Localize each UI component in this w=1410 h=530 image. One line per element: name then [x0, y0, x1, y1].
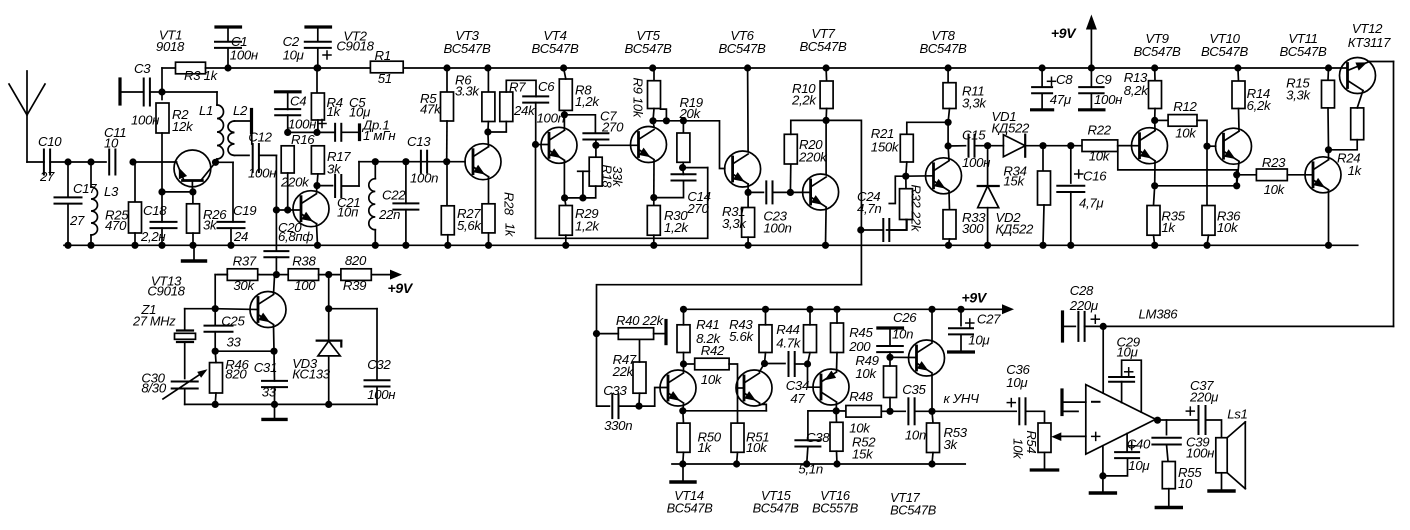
capacitor C25 33: [205, 326, 233, 332]
wire R40 right: [654, 333, 665, 335]
svg-text:3,3k: 3,3k: [722, 216, 747, 231]
wire R43 bottom: [765, 353, 766, 364]
capacitor C5 10μ: [335, 124, 341, 141]
svg-text:1,2k: 1,2k: [575, 218, 600, 233]
junction: [663, 117, 670, 124]
wire R9 top: [653, 68, 655, 81]
wire R20 bottom: [789, 164, 791, 192]
ferrite rod terminal: [250, 110, 253, 133]
svg-text:R45: R45: [849, 325, 873, 340]
svg-text:R38: R38: [292, 254, 316, 269]
svg-text:C4: C4: [290, 94, 306, 109]
svg-text:C38: C38: [806, 430, 830, 445]
wire R7-C6 top: [506, 80, 536, 96]
wire to VT6 base: [683, 121, 724, 169]
wire R2 bottom: [161, 133, 163, 192]
wire R53 bottom: [932, 453, 933, 465]
wire C14 top: [682, 168, 685, 175]
wire L1 top: [162, 91, 217, 93]
wire R27 top: [446, 162, 448, 206]
wire: [358, 162, 360, 186]
junction: [443, 158, 450, 165]
wire: [975, 145, 1004, 147]
antenna WA1: [9, 71, 45, 162]
junction: [372, 242, 379, 249]
wire to speaker: [1206, 420, 1222, 438]
svg-text:C9018: C9018: [336, 38, 374, 53]
svg-text:100н: 100н: [248, 166, 276, 181]
wire R24 bottom: [1329, 140, 1358, 150]
wire VT13 base: [215, 308, 258, 311]
wire R35 bottom: [1154, 235, 1155, 245]
emitter arrow VT12: [1355, 62, 1367, 70]
svg-text:100н: 100н: [1186, 446, 1214, 461]
wire VT16 base: [808, 364, 822, 387]
capacitor C17 27: [55, 197, 82, 203]
capacitor C31 33: [262, 381, 287, 387]
junction: [803, 460, 810, 467]
svg-text:C31: C31: [254, 360, 277, 375]
wire R23 right: [1287, 174, 1313, 176]
junction: [806, 306, 813, 313]
wire: [376, 309, 378, 380]
junction: [1099, 472, 1106, 479]
resistor R25 470: [129, 202, 142, 233]
junction: [804, 360, 811, 367]
junction: [313, 129, 320, 136]
capacitor C35 10n: [908, 398, 914, 424]
capacitor C22 22n: [393, 203, 418, 209]
junction: [902, 173, 909, 180]
wire VT8 emitter: [948, 191, 951, 209]
svg-text:27: 27: [69, 213, 85, 228]
junction: [745, 242, 752, 249]
svg-text:200: 200: [848, 339, 871, 354]
wire: [120, 91, 144, 93]
svg-text:47k: 47k: [420, 102, 442, 117]
junction: [484, 128, 491, 135]
wire C7 top: [564, 115, 595, 133]
resistor R47 22k: [633, 362, 646, 393]
wire R49 bottom: [889, 398, 891, 412]
junction: [444, 242, 451, 249]
junction: [87, 158, 94, 165]
junction: [984, 142, 991, 149]
svg-text:10k: 10k: [746, 440, 768, 455]
wire R41 bottom: [683, 353, 685, 365]
wire C24 left: [861, 229, 883, 231]
wire VT17 base: [890, 356, 917, 358]
wire R35 top: [1154, 186, 1155, 206]
wire coil bottom: [374, 230, 376, 246]
junction: [928, 408, 935, 415]
wire R51 bottom: [736, 452, 739, 464]
svg-text:R12: R12: [1173, 99, 1197, 114]
wire C12 out: [259, 154, 276, 156]
wire R12 left: [1155, 119, 1168, 121]
junction: [212, 401, 219, 408]
wire R34 bottom: [1043, 205, 1044, 245]
wire R9 tap: [661, 109, 667, 121]
junction: [129, 158, 136, 165]
junction: [1203, 143, 1210, 150]
junction: [833, 306, 840, 313]
wire C6 bottom: [535, 103, 537, 145]
svg-text:22k: 22k: [909, 210, 924, 233]
svg-text:10k: 10k: [631, 97, 646, 119]
junction: [402, 242, 409, 249]
svg-text:330n: 330n: [604, 418, 632, 433]
svg-text:1,2k: 1,2k: [575, 94, 600, 109]
resistor R46 820: [210, 363, 223, 393]
wire to VT5 base: [596, 144, 638, 146]
svg-text:C16: C16: [1083, 169, 1107, 184]
svg-text:C22: C22: [382, 188, 406, 203]
svg-text:24: 24: [233, 229, 248, 244]
wiper arrow R54: [1051, 432, 1061, 441]
junction: [650, 242, 657, 249]
svg-text:C13: C13: [407, 134, 431, 149]
wire: [184, 342, 186, 379]
junction: [1039, 142, 1046, 149]
junction: [270, 348, 277, 355]
junction: [372, 158, 379, 165]
junction: [212, 305, 219, 312]
wire Z1 top: [184, 309, 186, 331]
wire R10 bottom: [825, 109, 828, 121]
wire emitter row: [1155, 185, 1237, 187]
svg-text:270: 270: [601, 119, 624, 134]
svg-text:C35: C35: [902, 382, 926, 397]
wire VT8 collector: [947, 146, 950, 160]
svg-text:КД522: КД522: [996, 221, 1035, 236]
wire C14 bottom: [654, 180, 684, 197]
wire R41 top: [683, 309, 685, 325]
wire VT8 base: [906, 175, 934, 177]
resistor R26 3k: [187, 204, 200, 233]
capacitor C7 270: [583, 133, 608, 139]
svg-text:R9: R9: [631, 77, 646, 93]
svg-text:L3: L3: [104, 184, 119, 199]
wire stub: [1062, 410, 1078, 412]
capacitor C29 10μ: [1109, 377, 1134, 382]
wire R42 left: [684, 363, 695, 365]
wire VT7 collector: [825, 120, 827, 174]
svg-text:C9018: C9018: [147, 284, 185, 299]
svg-text:5,1n: 5,1n: [798, 462, 822, 477]
svg-text:Ls1: Ls1: [1227, 406, 1247, 421]
inductor L1: [217, 105, 224, 159]
transistor VT4 ВС547В: [541, 127, 577, 163]
wire R44 top: [809, 309, 811, 325]
wire VT3 emitter: [488, 177, 490, 204]
svg-text:C12: C12: [248, 130, 272, 145]
ground R55: [1156, 489, 1181, 508]
junction: [1233, 171, 1240, 178]
junction: [823, 64, 830, 71]
wire: [317, 185, 333, 187]
resistor R22 10k: [1082, 140, 1118, 152]
wire C32 top: [329, 308, 377, 310]
wire: [287, 92, 289, 110]
polarity + C27: [966, 319, 974, 327]
svg-text:10k: 10k: [855, 366, 877, 381]
svg-text:270: 270: [686, 201, 709, 216]
wire to УНЧ: [932, 410, 1016, 412]
wire R10 top: [825, 68, 828, 81]
svg-text:1k: 1k: [1348, 163, 1363, 178]
svg-text:820: 820: [225, 366, 247, 381]
polarity + C37: [1186, 407, 1194, 415]
capacitor C20 6,8пф: [264, 251, 288, 257]
capacitor C33 330n: [612, 394, 618, 418]
svg-text:КД522: КД522: [992, 120, 1031, 135]
transistor VT16 ВС557В: [813, 369, 849, 405]
wire R7 bottom: [488, 122, 506, 133]
wire AF input: [597, 285, 862, 406]
wire R42 right: [729, 364, 737, 423]
wire VT2 collector: [316, 186, 319, 192]
capacitor C16 4,7μ: [1057, 186, 1084, 192]
resistor R15 3,3k: [1322, 80, 1335, 108]
wire R12 right: [1197, 120, 1207, 205]
resistor R13 8,2k: [1149, 81, 1162, 109]
svg-text:BC557B: BC557B: [812, 501, 859, 516]
wire R18 tap down: [582, 171, 584, 198]
polarity + C8: [1048, 77, 1056, 85]
svg-text:R32: R32: [909, 185, 924, 209]
wire: [276, 274, 288, 276]
wire C27 top: [960, 309, 962, 325]
wire emitter row: [683, 410, 767, 412]
svg-text:C6: C6: [538, 79, 555, 94]
wire AF takeoff: [826, 120, 861, 284]
wire VT15 collector: [760, 364, 765, 372]
resistor R1 51: [370, 61, 403, 73]
wire C1: [227, 48, 229, 68]
svg-text:C18: C18: [143, 203, 167, 218]
wire R47 top: [639, 339, 641, 362]
svg-text:10k: 10k: [1264, 182, 1286, 197]
ground: [183, 245, 206, 261]
svg-text:C17: C17: [73, 181, 97, 196]
svg-text:ВС547В: ВС547В: [919, 41, 967, 56]
junction: [945, 64, 952, 71]
junction: [402, 158, 409, 165]
wire R26 top: [192, 192, 194, 204]
resistor R19 20k: [677, 133, 690, 162]
capacitor C27 10μ: [949, 328, 973, 334]
capacitor C10 27: [44, 150, 50, 175]
wire C25 top: [214, 309, 216, 326]
wire VT11 collector: [1328, 150, 1330, 160]
junction: [679, 164, 686, 171]
junction: [227, 242, 234, 249]
transistor VT11 ВС547В: [1305, 157, 1341, 193]
wire LM386 gnd: [1102, 446, 1104, 476]
capacitor C14 270: [672, 174, 696, 180]
junction: [833, 460, 840, 467]
junction: [87, 242, 94, 249]
junction: [680, 117, 687, 124]
wire R18 tap: [578, 170, 590, 172]
resistor R4 1k: [311, 93, 324, 120]
junction: [592, 142, 599, 149]
junction: [1151, 64, 1158, 71]
svg-text:2,2k: 2,2k: [791, 92, 817, 107]
capacitor C37 220μ: [1199, 406, 1206, 434]
wire C22 bottom: [405, 210, 407, 246]
svg-text:ВС547В: ВС547В: [624, 41, 672, 56]
wire node row: [653, 120, 683, 122]
junction: [1100, 323, 1107, 330]
resistor R6 3,3k: [482, 92, 495, 122]
svg-text:10μ: 10μ: [1117, 345, 1139, 360]
resistor R7 24k: [500, 92, 513, 122]
wire R31 top: [747, 192, 749, 207]
wire R32 top: [905, 176, 907, 189]
wire VT6 collector: [747, 68, 750, 152]
wire L3 top: [90, 162, 92, 187]
capacitor C8 47μ: [1032, 87, 1052, 93]
terminal R54 gnd: [1031, 468, 1057, 471]
wire C17 top: [67, 162, 69, 197]
wire R30 top: [653, 198, 655, 206]
wire: [563, 110, 565, 114]
terminal C26 top: [878, 326, 903, 329]
junction: [787, 189, 794, 196]
svg-text:ВС547В: ВС547В: [1133, 44, 1181, 59]
trimmer tap R40: [664, 321, 667, 344]
junction: [325, 305, 332, 312]
capacitor C11 10: [109, 150, 115, 175]
wire R47 bottom: [638, 393, 641, 406]
capacitor C4 100н: [275, 109, 300, 115]
wire: [319, 274, 341, 276]
wire output: [1156, 419, 1197, 421]
wire C26 bottom: [889, 352, 891, 357]
wire: [216, 92, 218, 105]
wire R8 top: [564, 68, 566, 79]
wire VT12 emitter: [1370, 61, 1394, 63]
svg-text:C15: C15: [962, 128, 986, 143]
junction: [64, 158, 71, 165]
svg-text:10μ: 10μ: [1006, 375, 1028, 390]
junction: [579, 194, 586, 201]
transistor VT10 ВС547В: [1216, 128, 1252, 164]
junction: [744, 64, 751, 71]
junction: [484, 64, 491, 71]
wire R31 bottom: [747, 237, 749, 245]
svg-text:1k: 1k: [698, 440, 713, 455]
capacitor C28 220μ: [1078, 312, 1084, 341]
wire VT15 emitter: [760, 404, 767, 410]
wire: [1118, 145, 1132, 147]
ground osc: [263, 404, 286, 419]
wire R13 bottom: [1154, 109, 1156, 121]
junction: [1151, 242, 1158, 249]
junction: [650, 194, 657, 201]
svg-text:100n: 100n: [410, 171, 438, 186]
junction: [1067, 242, 1074, 249]
resistor R49 10k: [884, 366, 897, 398]
svg-text:R39: R39: [343, 278, 367, 293]
svg-text:10: 10: [104, 136, 119, 151]
svg-text:R40 22k: R40 22k: [616, 313, 665, 328]
transistor VT6 ВС547В: [725, 151, 761, 187]
wire R5 bottom: [446, 121, 448, 162]
wire AF +9V bus: [684, 308, 1009, 310]
junction: [1088, 64, 1095, 71]
wire VT9 feedback: [1118, 146, 1237, 170]
resistor R11 3,3k: [943, 83, 956, 109]
capacitor C38 5,1n: [795, 440, 820, 446]
wire VT1 emitter: [133, 161, 177, 163]
polarity + C40: [1128, 442, 1136, 450]
svg-text:100: 100: [294, 278, 316, 293]
wire VT10 base: [1207, 145, 1216, 147]
wire C24 right: [890, 219, 907, 230]
wire: [162, 67, 176, 69]
wire R11 top: [947, 68, 949, 83]
junction: [1154, 417, 1161, 424]
wire +9V: [1090, 26, 1092, 68]
junction VT4 base: [532, 141, 539, 148]
wire C22 top: [405, 162, 407, 204]
resistor R42 10k: [695, 358, 729, 370]
junction: [284, 206, 291, 213]
polarity + C2: [323, 51, 331, 59]
wire R48 left: [836, 410, 846, 412]
wire: [251, 132, 253, 144]
wire C17 bottom: [67, 204, 69, 245]
wire R46 bottom: [214, 393, 217, 404]
wire C34 left: [765, 363, 786, 365]
wire C35 left: [890, 410, 905, 412]
wire VT5 emitter: [653, 161, 655, 198]
wire VT5 collector: [653, 121, 654, 127]
junction: [314, 64, 321, 71]
wire R55 top: [1167, 445, 1169, 462]
transistor VT1: [174, 150, 216, 192]
junction: [313, 64, 320, 71]
junction: [886, 408, 893, 415]
wire node row: [288, 131, 335, 133]
svg-text:+9V: +9V: [1051, 25, 1077, 41]
wire C29 bottom: [1121, 382, 1123, 403]
svg-text:R41: R41: [696, 317, 719, 332]
wire R19 bottom: [682, 162, 685, 167]
wire R50 top: [682, 411, 685, 423]
wire VT13 collector: [274, 275, 275, 294]
resistor R50 1k: [677, 423, 690, 452]
wire R9 bottom: [653, 109, 654, 121]
capacitor C2 10μ: [305, 42, 331, 48]
svg-text:12k: 12k: [172, 119, 194, 134]
resistor R41 8.2k: [677, 325, 690, 353]
wire VT4 collector: [563, 115, 565, 130]
terminal C8 gnd: [1032, 108, 1053, 111]
svg-text:ВС547В: ВС547В: [718, 41, 766, 56]
transistor VT7 ВС547В: [803, 174, 839, 210]
svg-text:6,8пф: 6,8пф: [278, 229, 313, 244]
wire C4 bottom: [287, 115, 289, 132]
wire C40 top: [1126, 434, 1128, 453]
resistor R8 1,2k: [559, 79, 572, 110]
capacitor C40 10μ: [1115, 452, 1139, 458]
transistor VT5 ВС547В: [631, 127, 667, 163]
wire R25 bottom: [134, 233, 136, 245]
